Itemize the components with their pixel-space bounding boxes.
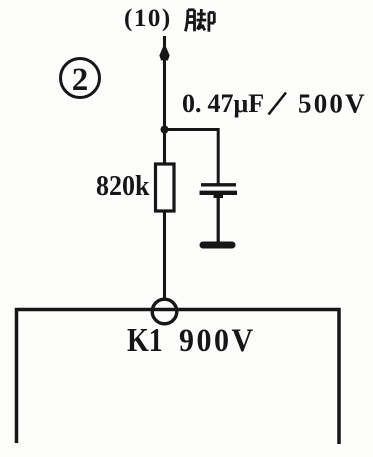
- resistor R 820k body: [156, 164, 175, 211]
- spark gap node K1 circle: [152, 299, 177, 324]
- svg-text:820k: 820k: [96, 170, 150, 201]
- svg-text:K1: K1: [127, 321, 163, 359]
- capacitor value label slash: [269, 93, 287, 115]
- label 900V: [179, 322, 256, 359]
- svg-text:47μF: 47μF: [208, 89, 265, 118]
- svg-text:0.: 0.: [182, 89, 202, 118]
- capacitor C bottom plate: [200, 191, 238, 195]
- node junction dot: [161, 126, 169, 134]
- wire horizontal junction to capacitor branch: [164, 128, 218, 131]
- ground bar: [203, 242, 232, 249]
- resistor value label 820k: [96, 170, 150, 201]
- svg-text:2: 2: [72, 62, 89, 98]
- capacitor lead bump: [214, 192, 224, 199]
- enclosure box outline: [17, 310, 340, 445]
- arrowhead up: [160, 46, 169, 60]
- label K1: [127, 321, 163, 359]
- svg-text:500V: 500V: [298, 89, 367, 119]
- circuit number circle 2: [61, 59, 100, 98]
- wire main vertical to pin (10): [163, 36, 166, 300]
- svg-text:900V: 900V: [179, 322, 256, 359]
- wire vertical capacitor branch: [217, 128, 220, 184]
- capacitor C top plate: [201, 183, 236, 186]
- svg-text:(10): (10): [124, 5, 172, 32]
- pin label glyph 脚: [185, 9, 214, 32]
- wire capacitor to ground bar: [217, 193, 220, 242]
